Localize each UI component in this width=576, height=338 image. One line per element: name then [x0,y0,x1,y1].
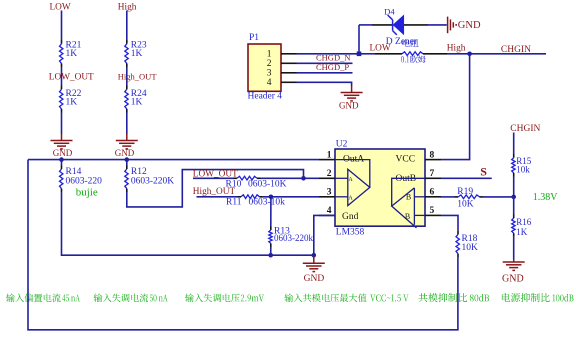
node [125,157,130,162]
wire [297,53,360,55]
svg-text:GND: GND [53,148,73,158]
svg-text:B: B [405,212,410,221]
wire [513,177,515,215]
svg-text:CHGIN: CHGIN [510,124,540,134]
ground [351,86,353,93]
svg-text:LOW_OUT: LOW_OUT [49,72,94,82]
svg-text:1: 1 [267,50,272,60]
wire [297,82,352,86]
svg-text:0603-10K: 0603-10K [248,180,287,190]
ground [126,134,128,141]
svg-text:3: 3 [267,69,272,79]
resistor R24 [125,89,128,109]
svg-text:A: A [348,177,353,183]
resistor R18 [457,231,459,235]
svg-text:0603-220K: 0603-220K [131,176,174,186]
resistor R22 [60,89,63,109]
svg-text:R14: R14 [66,167,82,177]
wire [127,170,304,207]
svg-text:10K: 10K [462,243,479,253]
wire [428,24,447,26]
wire [358,25,360,54]
wire (left loop) [28,160,458,330]
svg-text:1K: 1K [131,49,143,59]
diode D4 (zener) [372,24,393,26]
svg-text:S: S [480,164,487,178]
svg-text:R12: R12 [131,167,147,177]
svg-text:1K: 1K [131,98,143,108]
svg-text:Gnd: Gnd [342,212,359,222]
node [312,253,317,258]
node [511,195,516,200]
svg-text:GND: GND [304,274,325,284]
amp A triangle [348,169,370,205]
svg-text:VCC: VCC [396,154,416,164]
resistor R21 [60,44,63,64]
svg-text:10K: 10K [457,199,474,209]
svg-text:GND: GND [115,148,135,158]
wire [483,196,514,198]
svg-text:1K: 1K [516,227,528,237]
ground [61,134,63,141]
svg-text:LM358: LM358 [336,228,365,238]
svg-text:B: B [406,193,411,202]
svg-text:R19: R19 [457,187,473,197]
svg-text:R16: R16 [516,217,532,227]
wire [61,113,63,135]
node [301,176,306,181]
wire [28,159,319,161]
wire [359,24,372,26]
svg-text:4: 4 [267,78,272,88]
svg-text:High_OUT: High_OUT [118,71,158,81]
connector P1 Header 4 [248,44,281,91]
resistor R19 [441,196,455,198]
svg-text:Header 4: Header 4 [248,91,283,101]
wire [314,215,335,255]
wire [61,11,63,41]
svg-text:bujie: bujie [76,187,98,199]
wire [261,177,320,179]
note: green spec text line [6,294,61,303]
wire [441,54,470,160]
node [268,253,273,258]
wire [441,215,458,230]
svg-text:1.38V: 1.38V [533,192,559,203]
resistor R11 [197,196,238,198]
wire [297,72,353,74]
wire [263,196,319,198]
ground [513,260,515,263]
wire [62,192,314,255]
svg-text:CHGD_N: CHGD_N [316,52,350,62]
svg-text:R11: R11 [226,198,242,208]
wire [441,177,492,179]
svg-text:High_OUT: High_OUT [193,187,236,197]
ground [313,255,315,263]
ground (rotated) [447,17,449,34]
resistor R14 [61,160,63,166]
svg-text:1K: 1K [66,98,78,108]
svg-text:10k: 10k [516,165,530,175]
node [467,52,472,57]
svg-text:CHGD_P: CHGD_P [316,62,349,72]
wire [359,53,375,55]
resistor R12 [126,160,128,166]
svg-text:D4: D4 [384,7,395,17]
svg-text:OutB: OutB [396,174,417,184]
node [269,195,274,200]
svg-text:A: A [348,196,353,202]
wire [513,133,515,155]
resistor R13 [270,197,272,227]
wire [126,67,128,86]
svg-text:CHGIN: CHGIN [501,45,531,55]
svg-text:LOW: LOW [370,43,391,53]
resistor R16 [513,215,515,219]
svg-text:GND: GND [458,20,481,31]
wire [297,62,353,64]
svg-text:0603-220k: 0603-220k [274,233,313,243]
svg-text:2: 2 [267,59,272,69]
resistor 0.1 ohm [375,53,402,55]
svg-text:GND: GND [502,273,524,284]
svg-text:High: High [447,43,466,53]
node LOW junction [357,52,362,57]
wire [126,113,128,135]
svg-text:P1: P1 [249,33,259,43]
wire [513,237,515,260]
resistor R23 [125,44,128,64]
op-amp U2 LM358 [335,149,425,226]
svg-text:0603-220: 0603-220 [66,176,103,186]
resistor R15 [513,154,515,158]
svg-text:1K: 1K [66,49,78,59]
wire [61,67,63,86]
resistor R10 [193,177,234,179]
svg-text:0603-10k: 0603-10k [249,198,286,208]
svg-text:GND: GND [339,101,359,111]
amp B triangle [392,188,417,228]
svg-text:LOW: LOW [50,3,71,13]
wire [126,11,128,41]
svg-text:U2: U2 [336,139,348,149]
node [59,157,64,162]
wire [447,53,546,55]
